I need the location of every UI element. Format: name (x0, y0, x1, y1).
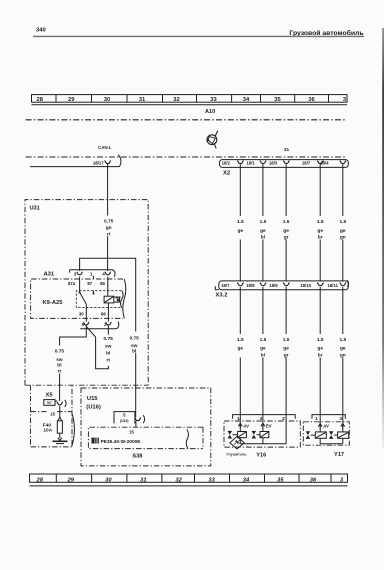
svg-text:340: 340 (36, 28, 47, 34)
wire 18/2 to 18/7 (col1) (239, 164, 241, 281)
bus bar bottom (plug numbers 28-37) (30, 474, 348, 486)
svg-text:1.5: 1.5 (283, 219, 290, 225)
svg-text:ge: ge (260, 229, 266, 234)
Y16 pin bracket (233, 415, 296, 419)
svg-text:gn: gn (340, 236, 346, 241)
svg-text:gn: gn (106, 226, 112, 231)
svg-text:34: 34 (243, 477, 250, 483)
header rule (33, 35, 364, 37)
svg-text:S38: S38 (132, 453, 142, 459)
svg-text:ge: ge (317, 347, 323, 352)
solenoid valve block Y17 (303, 422, 349, 445)
connector hook 9/7 (57, 402, 63, 405)
valve 1 (228, 431, 233, 439)
svg-text:ge: ge (283, 347, 289, 352)
terminal 5 (U10) (114, 412, 135, 424)
relay K9-A25 body (76, 291, 123, 308)
svg-text:18/2: 18/2 (222, 160, 231, 165)
continuation arc (30, 155, 121, 167)
svg-text:18/3: 18/3 (269, 160, 278, 165)
svg-text:ge: ge (283, 229, 289, 234)
wire pin5 branch diagonal (86, 327, 108, 369)
wire label 0.75 sw bl rt (54, 346, 66, 375)
torn curly edge (186, 429, 188, 448)
svg-text:X5: X5 (46, 392, 54, 398)
wire into S38 (135, 421, 137, 427)
svg-text:18/1: 18/1 (246, 160, 255, 165)
svg-text:(U10): (U10) (120, 419, 128, 423)
relay torn right edge (121, 291, 124, 308)
wire labels 1.5 ge (lower) (234, 334, 350, 358)
svg-text:bl: bl (261, 352, 265, 358)
svg-text:gn: gn (340, 353, 346, 358)
internal ground link (320, 438, 343, 443)
wire fuse to ground (58, 433, 62, 441)
svg-text:rt: rt (107, 231, 111, 237)
svg-text:1.5: 1.5 (260, 219, 267, 225)
svg-text:35: 35 (277, 477, 284, 483)
Y17 pin bracket (312, 415, 345, 419)
svg-text:18/7: 18/7 (221, 283, 230, 288)
relay socket bracket top (70, 270, 112, 273)
svg-text:0.75: 0.75 (104, 219, 114, 225)
svg-text:3: 3 (339, 416, 342, 422)
arrow 2 (341, 424, 345, 429)
wire to fuse (59, 406, 61, 417)
valve 2 (252, 431, 257, 439)
wire 18/4 to 18/11 (col5) (342, 164, 344, 281)
terminal 9/7 (44, 400, 57, 406)
control unit box U15 (U16) (81, 388, 211, 466)
valve 2 (329, 431, 334, 439)
svg-text:31: 31 (284, 147, 290, 153)
svg-text:28: 28 (35, 477, 43, 483)
svg-text:18/10: 18/10 (300, 283, 311, 288)
svg-text:34: 34 (243, 97, 250, 103)
svg-text:1.5: 1.5 (260, 337, 267, 343)
suppression diode (114, 297, 120, 302)
wire 18/7 to 18/10 (col4) (319, 164, 321, 281)
svg-text:bl: bl (261, 235, 265, 241)
svg-text:15: 15 (50, 411, 55, 416)
svg-text:sw: sw (131, 344, 138, 349)
svg-text:A10: A10 (205, 109, 215, 115)
svg-text:Глушитель: Глушитель (226, 452, 247, 456)
svg-text:3: 3 (74, 272, 77, 277)
svg-text:ge: ge (237, 347, 243, 352)
svg-text:sw: sw (56, 358, 63, 363)
svg-text:br: br (318, 235, 323, 241)
wire label 0.75 sw bl rt (102, 335, 114, 364)
svg-text:5: 5 (123, 413, 126, 418)
wire 18/1 to 18/8 (col2) (262, 164, 264, 281)
svg-text:1: 1 (315, 416, 318, 422)
svg-text:32: 32 (175, 477, 182, 483)
pump module S38 (88, 427, 203, 459)
svg-text:1.5: 1.5 (283, 337, 290, 343)
svg-text:sw: sw (105, 345, 112, 350)
svg-text:35: 35 (274, 97, 281, 103)
connector box X5 (31, 385, 73, 447)
svg-text:A31: A31 (44, 271, 55, 277)
svg-text:29: 29 (67, 477, 75, 483)
svg-text:15: 15 (129, 430, 134, 435)
svg-text:10A: 10A (43, 427, 52, 433)
svg-text:85: 85 (100, 281, 105, 286)
svg-text:rt: rt (106, 357, 110, 363)
continuation arc (112, 270, 115, 277)
wire 18/3 to 18/9 (col3) (285, 164, 287, 281)
solenoid coil 2 (260, 432, 269, 438)
svg-text:ge: ge (260, 347, 266, 352)
svg-text:1.5: 1.5 (237, 337, 244, 343)
wire labels 1.5 ge (upper) (234, 216, 350, 241)
svg-text:rt: rt (58, 369, 62, 375)
svg-text:EV: EV (266, 423, 272, 428)
svg-text:X3.2: X3.2 (216, 293, 228, 299)
svg-text:18/7: 18/7 (302, 160, 311, 165)
svg-text:Y17: Y17 (334, 452, 344, 458)
svg-text:87a: 87a (68, 281, 76, 286)
solenoid coil 1 (238, 432, 247, 438)
svg-text:36: 36 (310, 477, 317, 483)
gateway symbol (207, 131, 218, 149)
svg-text:X2: X2 (223, 171, 230, 177)
svg-text:ge: ge (340, 347, 346, 352)
svg-text:0.75: 0.75 (130, 336, 140, 342)
svg-text:Y16: Y16 (256, 453, 266, 459)
svg-text:(U16): (U16) (86, 405, 101, 411)
wire label 0.75 gn rt (102, 216, 115, 238)
svg-text:1.5: 1.5 (237, 219, 244, 225)
relay socket bracket bottom (80, 328, 115, 330)
fuse box bottom (31, 412, 73, 447)
svg-text:1.5: 1.5 (317, 337, 324, 343)
svg-text:32: 32 (173, 97, 179, 103)
svg-text:bl: bl (132, 349, 136, 355)
arrow AV (238, 423, 242, 428)
svg-text:18/11: 18/11 (327, 283, 338, 288)
svg-text:86: 86 (101, 311, 106, 316)
fuse F40 10A (43, 421, 63, 434)
internal ground link (240, 438, 286, 444)
svg-text:31: 31 (140, 477, 146, 483)
svg-text:28: 28 (36, 97, 43, 103)
svg-text:gr: gr (284, 235, 289, 241)
svg-text:ge: ge (237, 229, 243, 234)
connector X3.2 row (215, 280, 348, 298)
svg-text:1.5: 1.5 (339, 337, 346, 343)
muffler diamond (230, 436, 244, 449)
svg-text:CAN-L: CAN-L (98, 145, 112, 150)
svg-text:9/7: 9/7 (47, 401, 52, 405)
svg-text:18/4: 18/4 (320, 160, 329, 165)
svg-text:30: 30 (105, 477, 112, 483)
svg-text:18/9: 18/9 (269, 283, 278, 288)
svg-text:K9-A25: K9-A25 (43, 300, 64, 306)
svg-text:U15: U15 (87, 396, 98, 402)
connector X2 bracket (220, 160, 349, 168)
A10 boundary dash-dot line (26, 119, 347, 121)
wire label 0.75 sw bl (S38 wire) (128, 332, 141, 355)
continuation arc (143, 415, 144, 423)
ground (53, 440, 68, 442)
svg-text:gr: gr (284, 352, 289, 358)
svg-text:bl: bl (106, 351, 110, 357)
svg-text:31: 31 (139, 97, 146, 103)
svg-text:30: 30 (79, 311, 84, 316)
svg-text:29: 29 (68, 97, 75, 103)
svg-text:1: 1 (90, 272, 93, 277)
svg-text:U31: U31 (30, 205, 40, 211)
page right edge bar (382, 28, 384, 448)
svg-text:0.75: 0.75 (104, 336, 114, 342)
fuse box torn edge (72, 413, 75, 447)
connector hook 18/17 (104, 161, 111, 164)
arrow EV (261, 423, 265, 428)
svg-text:AV: AV (323, 424, 329, 429)
wire CAN-L down (107, 164, 109, 271)
wire tee to relay and S38 (80, 258, 136, 417)
svg-text:18/17: 18/17 (93, 160, 104, 165)
svg-text:ge: ge (317, 229, 323, 234)
svg-text:AV: AV (243, 423, 249, 428)
solenoid valve block Y16 (224, 421, 300, 449)
control unit box U31 (25, 200, 148, 386)
harness dash-dot line with X2 row (26, 156, 347, 158)
wire pin2 down (107, 326, 109, 335)
svg-text:0.75: 0.75 (55, 348, 65, 354)
contact 30/87a (79, 292, 81, 294)
connector hook 5(U10) (135, 418, 141, 421)
svg-text:30: 30 (104, 97, 110, 103)
A31 torn right edge (123, 279, 126, 318)
wires X3.2 to valves (239, 287, 241, 432)
continuation arc (116, 322, 119, 329)
svg-text:Грузовой автомобиль: Грузовой автомобиль (289, 29, 363, 37)
relay module box A31 (31, 271, 126, 318)
svg-text:PE35.40-W-2000E: PE35.40-W-2000E (101, 439, 142, 445)
wire pin5 to X5 (60, 326, 87, 401)
svg-text:1.5: 1.5 (339, 219, 346, 225)
svg-text:33: 33 (210, 97, 217, 103)
svg-text:ge: ge (340, 229, 346, 234)
relay coil (104, 296, 114, 303)
arrow AV (318, 424, 322, 429)
X3.2 bracket (219, 281, 348, 290)
svg-text:br: br (318, 352, 323, 358)
svg-text:1.5: 1.5 (317, 219, 324, 225)
valve 1 (306, 431, 311, 439)
svg-text:18/8: 18/8 (246, 283, 255, 288)
continuation arc (347, 280, 348, 287)
svg-text:87: 87 (87, 281, 92, 286)
bus bar top (plug numbers 28-37) (32, 95, 348, 105)
svg-text:33: 33 (208, 477, 215, 483)
svg-text:36: 36 (308, 97, 315, 103)
continuation arc (65, 400, 66, 407)
solenoid coil 2 (338, 432, 349, 438)
svg-text:bl: bl (57, 363, 61, 369)
manual icon (92, 438, 95, 444)
solenoid coil 1 (315, 432, 326, 438)
